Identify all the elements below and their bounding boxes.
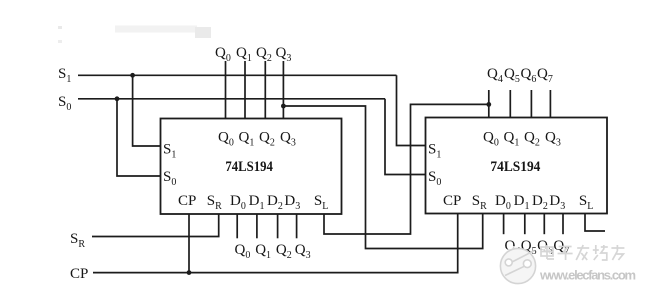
svg-text:CP: CP [178, 193, 196, 209]
wire U2 Q4 output [488, 90, 490, 118]
wire S0 to U2 [385, 99, 426, 175]
wire U2 D0 stub [503, 214, 505, 235]
wire U1 D0 stub [236, 214, 238, 238]
wire S1 branch to U1 [133, 75, 161, 146]
svg-text:www.elecfans.com: www.elecfans.com [539, 268, 636, 283]
junction S0/U1 [115, 96, 120, 101]
wire Q3 to U2 SR [283, 106, 482, 249]
IC U1 74LS194 (left chip body) [161, 119, 342, 215]
wire U2 D2 stub [543, 214, 545, 235]
wire U1 D3 stub [296, 214, 298, 238]
IC U2 74LS194 (right chip body) [426, 118, 608, 214]
wire U1 Q1 output [244, 61, 246, 119]
wire U1 CP down [188, 214, 190, 273]
svg-text:74LS194: 74LS194 [490, 159, 540, 175]
wire Q4 to U1 SL [324, 104, 489, 234]
wire U1 Q2 output [264, 61, 266, 119]
svg-text:74LS194: 74LS194 [225, 159, 273, 175]
junction S1/U1 [130, 73, 135, 78]
wire U1 Q3 output [282, 61, 284, 119]
wire U1 Q0 output [225, 61, 227, 119]
wire U2 Q7 output [549, 90, 551, 118]
junction CP/U1 [187, 270, 192, 275]
junction Q4 tap [486, 102, 491, 107]
svg-text:CP: CP [443, 193, 461, 209]
wire U2 D3 stub [562, 214, 564, 235]
wire U1 D1 stub [256, 214, 258, 238]
wire S1 bus horizontal [78, 74, 397, 76]
svg-text:CP: CP [70, 266, 88, 282]
wire U2 SL stub [585, 214, 605, 232]
watermark logo circle [500, 248, 535, 283]
faint scan streak top-left [58, 26, 62, 29]
wire U1 D2 stub [277, 214, 279, 238]
wire U2 D1 stub [524, 214, 526, 235]
junction Q3 tap [281, 104, 286, 109]
wire U2 Q5 output [509, 90, 511, 118]
wire S0 bus horizontal [78, 98, 385, 100]
wire SR input line [92, 214, 219, 237]
wire CP input line [93, 214, 458, 273]
watermark halo wash [508, 245, 617, 258]
wire U2 Q6 output [530, 90, 532, 118]
wire S0 branch to U1 [117, 99, 161, 176]
watermark text dianzifashaoyou (CJK drawn as shapes) [541, 245, 624, 260]
wire S1 to U2 [397, 75, 426, 145]
